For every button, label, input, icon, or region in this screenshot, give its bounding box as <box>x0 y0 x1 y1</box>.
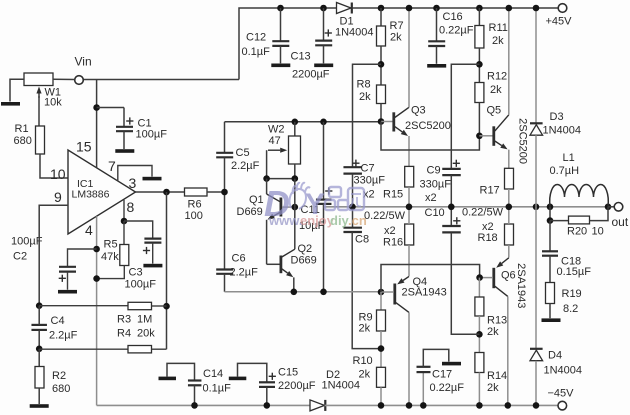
wire C7 bottom <box>352 174 354 207</box>
svg-text:C3: C3 <box>129 267 143 279</box>
capacitor C15 2200uF <box>259 382 275 387</box>
wire ground arm to C14 <box>167 363 195 380</box>
wire Vin node to V+ corner <box>84 79 240 81</box>
wire bias to C7 <box>353 64 382 166</box>
wire Q4 Q6 base tie <box>381 265 480 293</box>
svg-text:R14: R14 <box>487 370 507 382</box>
wire driver top line <box>225 121 382 123</box>
plus C7 <box>352 160 359 167</box>
svg-text:R10: R10 <box>353 355 373 367</box>
wire R15 bottom <box>408 187 410 207</box>
resistor R4 <box>128 346 152 353</box>
ground C1 <box>115 149 134 153</box>
svg-text:10: 10 <box>50 166 66 182</box>
wire Q3 Q5 base tie <box>381 122 479 151</box>
wire C16 bottom <box>436 46 438 64</box>
node R14 rail <box>476 402 483 409</box>
wire bottom -45V rail left <box>97 404 310 406</box>
node Q3 base <box>378 118 385 125</box>
svg-text:100µF: 100µF <box>136 129 168 141</box>
capacitor C6 2.2uF <box>216 270 233 274</box>
transistor Q3 2SC5200 <box>381 107 409 136</box>
ground C15 <box>229 377 247 381</box>
node Q1 base C11 <box>292 204 299 211</box>
svg-text:10k: 10k <box>44 97 62 109</box>
wire C12 top <box>280 8 282 41</box>
svg-text:7: 7 <box>108 158 116 174</box>
resistor R18 <box>505 224 514 245</box>
capacitor C4 2.2uF <box>31 325 47 330</box>
wire pin3 out <box>136 191 185 193</box>
wire W1 wiper to R1 <box>38 96 40 126</box>
svg-text:100µF: 100µF <box>125 279 157 291</box>
wire C13 bottom <box>323 46 325 64</box>
svg-text:0.22/5W: 0.22/5W <box>462 207 504 219</box>
svg-text:2.2µF: 2.2µF <box>49 330 78 342</box>
wire C10 to R13 R14 node <box>451 233 479 335</box>
svg-text:+45V: +45V <box>546 16 573 28</box>
ground C13 <box>314 64 333 68</box>
wire W1 left to ground <box>10 79 24 101</box>
node Q1 collector <box>263 175 270 182</box>
wire Q3 collector to +45 rail <box>408 8 410 107</box>
wire Q5 collector to rail <box>508 8 510 115</box>
svg-text:2200µF: 2200µF <box>292 69 330 81</box>
resistor R15 <box>405 166 414 187</box>
wire output rail <box>324 206 608 208</box>
node D4 rail <box>533 402 540 409</box>
svg-text:LM3886: LM3886 <box>72 188 110 200</box>
wire R11 to R12 <box>478 48 480 83</box>
svg-text:330µF: 330µF <box>420 179 452 191</box>
svg-text:R11: R11 <box>489 22 508 34</box>
wire pin15 V+ drop <box>96 80 98 168</box>
plus C2 <box>59 275 66 282</box>
node C12 <box>277 5 284 12</box>
wire R11 top <box>478 8 480 26</box>
svg-text:R3: R3 <box>117 314 131 326</box>
wire W1 right to Vin <box>53 78 75 80</box>
potentiometer W1 <box>24 73 53 98</box>
svg-text:2SC5200: 2SC5200 <box>405 120 451 132</box>
svg-text:0.22µF: 0.22µF <box>439 25 474 37</box>
node pin8 <box>121 218 128 225</box>
wire pin8 drop <box>123 200 125 221</box>
wire R18 top <box>508 207 510 224</box>
node R13 R14 <box>476 331 483 338</box>
node L1 right <box>605 204 612 211</box>
capacitor C5 2.2uF <box>216 153 233 158</box>
diode D2 1N4004 <box>310 400 325 411</box>
wire C4 bottom <box>38 330 40 349</box>
resistor R17 <box>505 168 514 189</box>
wire Q6 collector to -45 rail <box>507 296 509 405</box>
svg-text:1N4004: 1N4004 <box>322 380 361 392</box>
svg-text:100µF: 100µF <box>11 236 43 248</box>
wire C2 bottom <box>67 272 69 290</box>
node Q6 base <box>476 274 483 281</box>
wire to R20 <box>550 220 569 222</box>
node R11 top <box>476 5 483 12</box>
ground W1 <box>1 102 20 106</box>
resistor R8 <box>377 85 386 104</box>
potentiometer W2 47 <box>268 136 301 164</box>
resistor R6 <box>185 188 208 196</box>
svg-text:R18: R18 <box>478 232 498 244</box>
wire C14 bottom <box>194 386 196 406</box>
node R20 left <box>547 217 554 224</box>
svg-text:−45V: −45V <box>548 388 575 400</box>
svg-text:R15: R15 <box>383 189 403 201</box>
wire C1 bottom <box>123 131 125 149</box>
node Q5 base <box>476 133 483 140</box>
op-amp IC1 LM3886 <box>68 150 136 234</box>
svg-text:0.22/5W: 0.22/5W <box>364 210 406 222</box>
wire R8 bottom <box>380 104 382 122</box>
node Q2 emitter <box>291 289 298 296</box>
wire Q3 emitter to R15 <box>408 136 410 166</box>
capacitor C14 0.1uF <box>188 381 202 386</box>
svg-text:8.2: 8.2 <box>563 303 578 315</box>
svg-text:C2: C2 <box>13 251 27 263</box>
diode D3 1N4004 <box>530 123 543 135</box>
plus C9 <box>453 160 460 167</box>
svg-text:Vin: Vin <box>75 54 92 68</box>
wire C11 bottom <box>323 204 325 292</box>
resistor R9 <box>377 310 386 331</box>
svg-text:1M: 1M <box>137 314 152 326</box>
svg-text:C15: C15 <box>278 367 298 379</box>
wire R19 bottom <box>549 304 551 319</box>
wire C6 bottom <box>224 274 226 292</box>
svg-text:2k: 2k <box>359 323 371 335</box>
svg-text:R6: R6 <box>188 199 202 211</box>
node L1 left <box>547 204 554 211</box>
svg-text:diy: diy <box>330 213 350 228</box>
ground C2 <box>58 290 77 294</box>
wire C3 bottom <box>152 243 154 264</box>
svg-text:L1: L1 <box>563 152 575 164</box>
svg-text:680: 680 <box>52 383 70 395</box>
node Q4 base <box>378 289 385 296</box>
svg-text:Q1: Q1 <box>249 194 264 206</box>
ground R2 <box>30 404 49 408</box>
wire R3 right <box>152 305 167 307</box>
plus C10 <box>453 217 460 224</box>
wire C11 top <box>323 122 325 199</box>
svg-text:Q5: Q5 <box>487 105 502 117</box>
svg-text:C10: C10 <box>425 207 445 219</box>
wire ground arm to C15 <box>238 363 267 381</box>
wire D4 bottom <box>535 361 537 405</box>
node R7 top <box>378 5 385 12</box>
wire R2 to ground <box>38 388 40 404</box>
wire C1 top <box>123 108 125 127</box>
node C4 R4 <box>36 346 43 353</box>
wire C17 top to ground <box>423 349 449 366</box>
svg-text:out: out <box>612 215 629 229</box>
node R11 R12 <box>476 61 483 68</box>
wire C8 to R9 R10 node <box>352 232 381 348</box>
svg-text:R19: R19 <box>562 288 582 300</box>
wire R10 bottom <box>380 387 382 405</box>
wire pin8 to C3 <box>124 221 153 238</box>
transistor Q5 2SC5200 <box>479 115 508 150</box>
wire D3 bottom <box>535 135 537 207</box>
wire Q1 base <box>282 206 295 208</box>
capacitor C2 100uF <box>59 267 76 272</box>
resistor R10 <box>377 367 386 387</box>
svg-text:100: 100 <box>185 210 203 222</box>
ground pin7 <box>143 177 162 181</box>
wire pin9 to feedback <box>39 205 68 305</box>
svg-text:D4: D4 <box>548 350 562 362</box>
svg-text:1N4004: 1N4004 <box>543 125 582 137</box>
svg-text:Q3: Q3 <box>411 105 426 117</box>
wire to R4 <box>39 348 128 350</box>
ground C12 <box>271 64 290 68</box>
svg-text:0.7µH: 0.7µH <box>550 165 580 177</box>
svg-text:D669: D669 <box>237 206 263 218</box>
node R6 output <box>221 189 228 196</box>
wire R14 bottom <box>478 373 480 406</box>
wire C18 top <box>549 221 551 251</box>
wire Q5 emitter to R17 <box>508 150 510 169</box>
svg-text:Q2: Q2 <box>298 243 313 255</box>
wire R6 right <box>207 191 225 193</box>
resistor R3 <box>128 302 152 309</box>
node inverting input <box>36 302 43 309</box>
node R7 R8 <box>378 61 385 68</box>
node D3 rail <box>533 5 540 12</box>
inductor L1 0.7uH <box>550 185 609 207</box>
svg-text:2k: 2k <box>487 382 499 394</box>
wire to out terminal <box>608 206 614 208</box>
svg-text:2k: 2k <box>487 326 499 338</box>
plus C3 <box>143 247 150 254</box>
ground C3 <box>143 264 162 268</box>
capacitor C17 0.22uF <box>417 367 431 372</box>
transistor Q6 2SA1943 <box>480 258 509 297</box>
svg-text:9: 9 <box>54 189 62 205</box>
node C2 <box>93 246 100 253</box>
svg-text:R12: R12 <box>487 71 507 83</box>
wire R20 left drop <box>549 207 551 221</box>
watermark logo <box>264 183 364 224</box>
svg-text:R5: R5 <box>104 239 118 251</box>
node W2 top <box>292 119 299 126</box>
ground C17 <box>442 362 461 366</box>
resistor R12 <box>475 83 484 103</box>
wire C10 top <box>450 207 452 226</box>
svg-text:C17: C17 <box>432 369 452 381</box>
plus C1 <box>126 117 133 124</box>
wire D4 top <box>535 207 537 349</box>
wire R12 bottom <box>478 103 480 136</box>
wire C16 top <box>436 8 438 41</box>
svg-text:R1: R1 <box>15 123 29 135</box>
resistor R5 <box>120 245 129 266</box>
svg-text:47: 47 <box>269 135 281 147</box>
node D3 D4 <box>533 204 540 211</box>
svg-text:2k: 2k <box>492 35 504 47</box>
wire W2 bottom to Q1 base <box>294 179 296 208</box>
wire C5 top <box>224 122 226 152</box>
wire C18 to R19 <box>549 256 551 283</box>
svg-text:C8: C8 <box>355 234 369 246</box>
svg-text:C7: C7 <box>361 163 375 175</box>
resistor R20 <box>569 216 590 224</box>
svg-text:1N4004: 1N4004 <box>335 27 374 39</box>
capacitor C7 330uF x2 <box>343 167 362 173</box>
wire R17 bottom <box>508 189 510 207</box>
wire C4 top <box>38 306 40 325</box>
wire to C2 <box>68 249 97 266</box>
diode D1 1N4004 <box>337 2 352 13</box>
wire C13 top <box>323 8 325 40</box>
capacitor C9 330uF x2 <box>442 169 461 175</box>
svg-text:R13: R13 <box>487 315 507 327</box>
transistor Q4 2SA1943 <box>381 276 409 312</box>
node C13 <box>320 5 327 12</box>
capacitor C12 0.1uF <box>272 41 289 46</box>
capacitor C11 10uF <box>316 200 332 204</box>
node C11 bottom <box>320 289 327 296</box>
svg-text:20k: 20k <box>137 328 155 340</box>
svg-text:2SA1943: 2SA1943 <box>515 263 527 308</box>
wire driver bottom line <box>225 291 382 293</box>
svg-text:47k: 47k <box>101 251 119 263</box>
wire W2 top <box>294 122 296 136</box>
transistor Q1 D669 <box>267 179 281 265</box>
svg-text:C14: C14 <box>203 368 223 380</box>
svg-text:C4: C4 <box>51 315 65 327</box>
wire C15 bottom <box>266 387 268 405</box>
svg-text:2SA1943: 2SA1943 <box>402 287 447 299</box>
terminal out <box>614 203 623 212</box>
wire Q4 collector to -45 rail <box>408 312 410 405</box>
node R10 rail <box>378 402 385 409</box>
node output pin3 <box>163 189 170 196</box>
svg-text:2200µF: 2200µF <box>278 380 316 392</box>
node C1 junction <box>93 104 100 111</box>
transistor Q2 D669 <box>267 207 295 292</box>
node C14 rail <box>191 402 198 409</box>
resistor R2 <box>35 367 44 389</box>
node Q3 collector rail <box>406 5 413 12</box>
resistor R1 <box>36 126 45 154</box>
svg-text:R16: R16 <box>383 237 403 249</box>
wire to C1 <box>97 107 124 109</box>
node C16 <box>433 5 440 12</box>
svg-text:D3: D3 <box>550 111 564 123</box>
wire R9 to R10 <box>380 331 382 367</box>
node C7 C8 <box>349 204 356 211</box>
terminal +45V <box>558 4 567 13</box>
svg-text:2k: 2k <box>359 369 371 381</box>
wire R16 top <box>408 207 410 224</box>
svg-text:2k: 2k <box>390 32 402 44</box>
svg-text:680: 680 <box>14 135 32 147</box>
resistor R14 <box>475 353 484 373</box>
wire wiper to W2 bottom <box>267 178 295 180</box>
ground R19 <box>542 318 561 322</box>
resistor R13 <box>475 297 484 316</box>
svg-text:Q6: Q6 <box>501 270 516 282</box>
svg-text:W2: W2 <box>268 124 285 136</box>
wire R5 to V- node <box>97 266 125 279</box>
svg-text:C9: C9 <box>427 165 441 177</box>
wire R20 right up <box>590 207 609 221</box>
wire R1 to pin 10 <box>40 154 68 178</box>
capacitor C3 100uF <box>144 239 161 243</box>
node Q4 collector rail <box>406 402 413 409</box>
svg-text:R17: R17 <box>480 185 500 197</box>
wire top +45V rail right of D1 <box>353 7 558 9</box>
svg-text:R20: R20 <box>567 226 587 238</box>
terminal -45V <box>558 401 567 410</box>
node R9 R10 <box>378 345 385 352</box>
wire R7 top <box>380 8 382 26</box>
svg-text:8: 8 <box>127 199 135 215</box>
svg-text:x2: x2 <box>425 192 437 204</box>
svg-text:R8: R8 <box>357 79 371 91</box>
svg-text:C6: C6 <box>232 253 246 265</box>
wire V+ feed from rail down-left <box>239 8 336 80</box>
node C17 rail <box>420 402 427 409</box>
wire C9 bottom <box>450 175 452 207</box>
wire R13 to R14 <box>478 316 480 353</box>
svg-text:C5: C5 <box>236 147 250 159</box>
capacitor C13 2200uF <box>315 41 332 46</box>
node R17 R18 <box>506 204 513 211</box>
plus C13 <box>325 29 332 36</box>
node Q5 collector rail <box>506 5 513 12</box>
svg-text:3: 3 <box>129 175 137 191</box>
svg-text:2.2µF: 2.2µF <box>230 267 259 279</box>
svg-text:www.: www. <box>268 213 302 228</box>
svg-text:R2: R2 <box>52 370 66 382</box>
wire bias to C9 <box>451 64 479 168</box>
plus C15 <box>269 373 276 380</box>
capacitor C16 0.22uF <box>428 41 445 46</box>
capacitor C8 <box>343 228 362 232</box>
wire C17 bottom <box>422 373 424 406</box>
terminal Vin <box>75 76 84 85</box>
node R5 return <box>93 275 100 282</box>
svg-text:4: 4 <box>85 222 93 238</box>
capacitor C18 0.15uF <box>542 251 558 255</box>
wire C12 bottom <box>280 46 282 63</box>
node C9 C10 <box>448 204 455 211</box>
wire feedback vertical <box>166 192 168 349</box>
resistor R16 <box>405 224 414 245</box>
svg-text:2.2µF: 2.2µF <box>231 160 260 172</box>
wire C5 C6 middle <box>224 158 226 269</box>
watermark url <box>268 213 367 228</box>
svg-text:330µF: 330µF <box>354 175 386 187</box>
svg-text:0.1µF: 0.1µF <box>242 46 271 58</box>
svg-text:15: 15 <box>76 138 92 154</box>
node R15 R16 <box>406 204 413 211</box>
capacitor C1 100uF <box>116 127 133 131</box>
svg-text:C13: C13 <box>291 51 311 63</box>
resistor R19 <box>546 283 555 304</box>
svg-text:1N4004: 1N4004 <box>544 365 583 377</box>
wire to R2 <box>38 349 40 367</box>
svg-text:R4: R4 <box>117 328 131 340</box>
ground C16 <box>427 64 446 68</box>
